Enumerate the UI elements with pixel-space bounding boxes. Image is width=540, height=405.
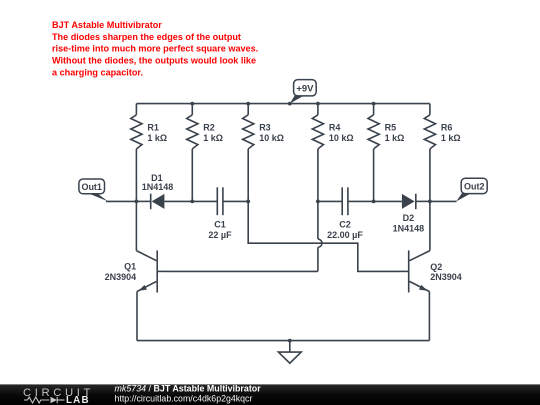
transistor Q2 2N3904 xyxy=(400,250,462,292)
svg-text:1N4148: 1N4148 xyxy=(393,223,425,233)
footer title text xyxy=(115,383,262,403)
node: R3 top junction xyxy=(246,102,250,106)
wire: Q1 emitter column xyxy=(136,292,138,341)
svg-text:1 kΩ: 1 kΩ xyxy=(441,133,461,143)
svg-text:rise-time into much more perfe: rise-time into much more perfect square … xyxy=(52,44,258,54)
node Out1 callout flag xyxy=(79,179,108,201)
svg-text:1 kΩ: 1 kΩ xyxy=(385,133,405,143)
svg-text:LAB: LAB xyxy=(66,395,90,405)
wire: R4 node to C2 left plate xyxy=(318,200,342,202)
node: R3 bottom junction xyxy=(246,200,250,204)
diode D2 1N4148 (cathode right) xyxy=(393,194,425,234)
svg-text:22.00 µF: 22.00 µF xyxy=(327,230,363,240)
resistor R3 10 kOhm xyxy=(243,104,284,202)
svg-text:R1: R1 xyxy=(147,123,159,133)
svg-text:http://circuitlab.com/c4dk6p2g: http://circuitlab.com/c4dk6p2g4kqcr xyxy=(115,394,253,404)
node: R4 bottom junction xyxy=(316,200,320,204)
wire: R2 node to C1 left plate xyxy=(192,200,217,202)
svg-text:BJT Astable Multivibrator: BJT Astable Multivibrator xyxy=(52,20,162,30)
node: R5 bottom junction xyxy=(372,200,376,204)
svg-text:22 µF: 22 µF xyxy=(208,230,232,240)
resistor R6 1 kOhm xyxy=(424,104,460,202)
svg-text:C2: C2 xyxy=(339,219,351,229)
CircuitLab logo xyxy=(23,387,94,405)
svg-text:Q2: Q2 xyxy=(430,262,442,272)
wire: Q1 collector column xyxy=(135,201,137,250)
svg-text:R5: R5 xyxy=(385,123,397,133)
node: Q1 collector junction xyxy=(135,200,139,204)
svg-text:R4: R4 xyxy=(329,123,341,133)
svg-text:Q1: Q1 xyxy=(124,261,136,271)
svg-text:Without the diodes, the output: Without the diodes, the outputs would lo… xyxy=(52,56,256,66)
wire: R3/C1 node down and across to Q2 base xyxy=(248,201,400,271)
node Out2 callout flag xyxy=(456,178,487,201)
wire: D2 cathode to R6 node xyxy=(416,200,430,202)
wire: C1 right plate to R3 node xyxy=(223,200,248,202)
resistor R4 10 kOhm xyxy=(312,104,353,202)
resistor R2 1 kOhm xyxy=(187,104,223,202)
svg-text:D2: D2 xyxy=(403,213,415,223)
svg-text:10 kΩ: 10 kΩ xyxy=(329,133,354,143)
svg-text:mk5734 / BJT Astable Multivibr: mk5734 / BJT Astable Multivibrator xyxy=(115,383,262,393)
svg-text:a charging capacitor.: a charging capacitor. xyxy=(52,68,143,78)
annotation: red description text xyxy=(52,20,258,78)
svg-text:10 kΩ: 10 kΩ xyxy=(259,133,284,143)
ground xyxy=(278,341,301,364)
capacitor C2 22.00 uF xyxy=(327,187,363,240)
node: ground junction xyxy=(288,339,292,343)
diode D1 1N4148 (cathode left) xyxy=(136,173,173,209)
svg-text:The diodes sharpen the edges o: The diodes sharpen the edges of the outp… xyxy=(52,32,241,42)
resistor R1 1 kOhm xyxy=(131,104,167,202)
wire: R4/C2 node down (hops over crossing wire) to Q1 base xyxy=(166,201,322,271)
power +9V callout flag xyxy=(290,80,316,104)
svg-text:2N3904: 2N3904 xyxy=(105,272,137,282)
wire: top +9V rail xyxy=(136,103,430,105)
wire: D1 anode to R2 node xyxy=(164,200,192,202)
wire: C2 right plate to R5 node xyxy=(348,200,374,202)
capacitor C1 22 uF xyxy=(208,187,232,240)
svg-text:1 kΩ: 1 kΩ xyxy=(147,133,167,143)
svg-text:1 kΩ: 1 kΩ xyxy=(203,133,223,143)
wire: Out1 to Q1 collector node xyxy=(106,200,136,202)
wire: Q2 emitter column xyxy=(428,292,430,341)
resistor R5 1 kOhm xyxy=(368,104,404,202)
wire: R6 node to Out2 xyxy=(430,200,457,202)
transistor Q1 2N3904 xyxy=(105,250,166,292)
wire: bottom ground rail xyxy=(137,340,429,342)
wire: R5 node to D2 anode xyxy=(374,200,402,202)
svg-text:2N3904: 2N3904 xyxy=(430,272,462,282)
node: R2 bottom junction xyxy=(190,200,194,204)
svg-text:R2: R2 xyxy=(203,123,215,133)
svg-text:+9V: +9V xyxy=(296,84,314,95)
node: R5 top junction xyxy=(372,102,376,106)
svg-text:1N4148: 1N4148 xyxy=(142,182,174,192)
node: R4 top junction xyxy=(316,102,320,106)
svg-text:Out1: Out1 xyxy=(81,182,102,192)
node: R2 top junction xyxy=(190,102,194,106)
wire: Q2 collector column xyxy=(429,201,431,250)
svg-text:R6: R6 xyxy=(441,123,453,133)
svg-text:R3: R3 xyxy=(259,123,271,133)
node: Q2 collector junction xyxy=(428,200,432,204)
svg-text:Out2: Out2 xyxy=(464,181,485,191)
footer black banner xyxy=(0,384,540,405)
node: +9V junction on rail xyxy=(288,102,292,106)
svg-text:C1: C1 xyxy=(214,219,226,229)
